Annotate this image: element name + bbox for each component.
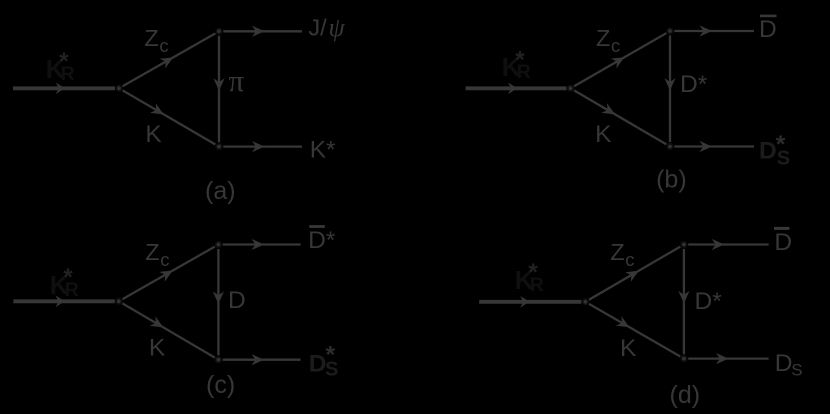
- wire: Z_c propagator (c): [122, 247, 214, 300]
- label (d) caption: [670, 381, 701, 409]
- diagram (c): [13, 225, 338, 399]
- diagram (a): [13, 13, 346, 205]
- node: left vertex (d): [582, 298, 589, 305]
- wire: exchange propagator (a): [213, 36, 224, 143]
- label (a) caption: [205, 177, 236, 205]
- label top product (b): [759, 15, 777, 43]
- label K (b): [595, 121, 612, 148]
- wire: K propagator (a): [123, 90, 216, 144]
- label (c) caption: [206, 371, 235, 399]
- svg-text:(b): (b): [656, 166, 687, 194]
- svg-text:D: D: [775, 350, 793, 377]
- svg-text:D: D: [759, 137, 777, 164]
- label Z_c (d): [610, 239, 634, 270]
- wire: exchange propagator (d): [678, 249, 689, 354]
- node: top vertex (b): [667, 28, 674, 35]
- node: bottom vertex (a): [216, 143, 223, 150]
- svg-text:c: c: [160, 249, 169, 270]
- svg-text:K: K: [595, 121, 612, 148]
- svg-text:J/: J/: [308, 14, 327, 40]
- label (b) caption: [656, 166, 687, 194]
- node: left vertex (b): [567, 85, 574, 92]
- svg-text:Z: Z: [145, 239, 159, 265]
- label top product (d): [774, 227, 792, 256]
- svg-text:π: π: [229, 63, 245, 98]
- svg-text:D: D: [309, 350, 327, 377]
- svg-text:K: K: [149, 334, 166, 361]
- wire: K propagator (d): [589, 304, 680, 357]
- svg-text:D: D: [759, 16, 777, 43]
- svg-text:c: c: [159, 35, 168, 56]
- label K_R* (b): [502, 46, 531, 83]
- node: bottom vertex (d): [680, 355, 687, 362]
- label exchange particle (b): [680, 71, 708, 98]
- wire: bottom outgoing line (b): [674, 141, 754, 152]
- diagram (d): [479, 227, 802, 409]
- label K_R* (d): [515, 259, 544, 296]
- svg-text:Z: Z: [610, 239, 624, 265]
- label Z_c (c): [145, 239, 169, 270]
- wire: Z_c propagator (b): [574, 33, 666, 86]
- label K (d): [620, 335, 637, 362]
- svg-text:D: D: [774, 229, 792, 256]
- svg-text:Z: Z: [596, 25, 610, 51]
- label bottom product (d): [775, 350, 803, 380]
- wire: Z_c propagator (d): [589, 247, 680, 300]
- svg-text:*: *: [63, 264, 73, 291]
- wire: incoming K_R* line (c): [13, 296, 114, 308]
- wire: exchange propagator (b): [664, 35, 675, 142]
- label bottom product (a): [310, 137, 336, 164]
- wire: bottom outgoing line (d): [688, 353, 768, 364]
- wire: incoming K_R* line (b): [466, 83, 567, 95]
- svg-text:(c): (c): [206, 371, 235, 399]
- svg-text:*: *: [776, 131, 786, 158]
- label Z_c (a): [144, 25, 168, 56]
- svg-text:*: *: [515, 46, 525, 73]
- svg-text:K: K: [145, 121, 162, 148]
- label exchange particle (d): [695, 288, 723, 315]
- svg-text:c: c: [611, 35, 620, 56]
- svg-text:D: D: [228, 287, 246, 314]
- wire: Z_c propagator (a): [123, 33, 216, 86]
- wire: top outgoing line (c): [223, 239, 301, 250]
- label bottom product (c): [309, 341, 339, 380]
- label K (c): [149, 334, 166, 361]
- svg-text:(d): (d): [670, 381, 701, 409]
- wire: incoming K_R* line (d): [479, 296, 581, 308]
- label K (a): [145, 121, 162, 148]
- wire: K propagator (b): [574, 90, 666, 144]
- svg-text:Z: Z: [144, 25, 158, 51]
- node: bottom vertex (c): [215, 356, 222, 363]
- wire: K propagator (c): [122, 303, 214, 357]
- node: left vertex (c): [115, 298, 122, 305]
- svg-text:*: *: [326, 341, 336, 368]
- svg-text:(a): (a): [205, 177, 236, 205]
- svg-text:*: *: [528, 259, 538, 286]
- label top product (a): [308, 13, 345, 42]
- wire: exchange propagator (c): [213, 249, 224, 355]
- node: left vertex (a): [116, 85, 123, 92]
- svg-text:D*: D*: [680, 71, 708, 98]
- node: top vertex (d): [680, 241, 687, 248]
- label Z_c (b): [596, 25, 620, 56]
- label K_R* (a): [46, 48, 75, 85]
- wire: bottom outgoing line (a): [223, 141, 302, 152]
- wire: incoming K_R* line (a): [13, 83, 115, 95]
- node: top vertex (c): [215, 241, 222, 248]
- label exchange particle (a): [229, 63, 245, 98]
- label exchange particle (c): [228, 287, 246, 314]
- svg-text:S: S: [791, 361, 802, 380]
- svg-text:ψ: ψ: [329, 13, 346, 42]
- svg-text:c: c: [625, 249, 634, 270]
- svg-text:D*: D*: [308, 227, 336, 254]
- svg-text:K: K: [620, 335, 637, 362]
- node: top vertex (a): [216, 28, 223, 35]
- label bottom product (b): [759, 131, 790, 169]
- label top product (c): [308, 225, 336, 254]
- diagram (b): [466, 15, 791, 194]
- svg-text:D*: D*: [695, 288, 723, 315]
- wire: top outgoing line (d): [688, 239, 768, 250]
- wire: top outgoing line (a): [223, 26, 302, 37]
- wire: bottom outgoing line (c): [223, 354, 301, 365]
- svg-text:*: *: [59, 48, 69, 75]
- node: bottom vertex (b): [667, 143, 674, 150]
- svg-text:K*: K*: [310, 137, 336, 164]
- wire: top outgoing line (b): [674, 25, 754, 36]
- label K_R* (c): [50, 264, 79, 301]
